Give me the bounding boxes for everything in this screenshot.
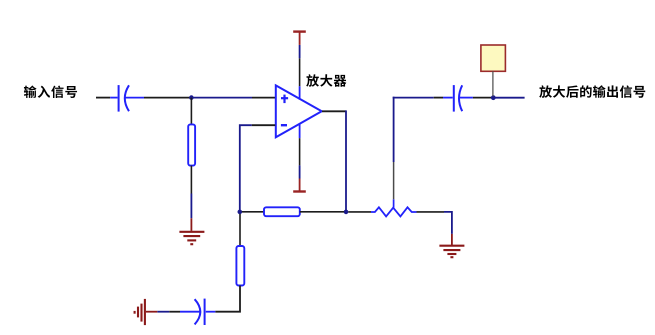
wire	[169, 311, 180, 313]
wire V+ pin	[299, 58, 301, 86]
wire output down to node B	[345, 110, 347, 211]
wire input lead	[96, 97, 110, 99]
wire output stub	[496, 97, 525, 99]
ground G1	[179, 232, 204, 244]
wire feedback corner	[240, 125, 252, 212]
power terminal V-	[293, 179, 306, 192]
wire ground lead	[190, 218, 192, 231]
resistor R3	[236, 246, 244, 286]
wire node A to op-amp	[193, 97, 252, 99]
wire corner to C2	[393, 97, 434, 99]
wire C2 left pin	[434, 97, 443, 99]
ground G3 (rotated)	[135, 299, 145, 325]
wire R4 to ground corner	[417, 211, 445, 213]
capacitor C2	[443, 85, 473, 112]
resistor R1	[188, 124, 195, 165]
node D junction	[491, 95, 496, 100]
wire R2 right pin	[300, 211, 344, 213]
wire R3 down corner to C3	[215, 286, 240, 312]
wire R2 left pin	[242, 211, 264, 213]
wire R1 to ground	[190, 166, 192, 194]
label 放大器 (amplifier)	[306, 74, 346, 86]
node B junction	[344, 210, 349, 215]
wire ground lead	[146, 311, 157, 313]
wire R4 wiper stub	[393, 199, 395, 207]
wire ground lead	[451, 234, 453, 245]
terminal box (yellow pad)	[481, 45, 506, 71]
wire wiper riser	[393, 162, 395, 199]
capacitor C1	[110, 85, 144, 112]
wire	[299, 45, 301, 58]
wire node B to R4	[348, 211, 371, 213]
op-amp U1	[276, 85, 322, 138]
potentiometer R4 zigzag	[371, 207, 417, 216]
wire - input pin	[252, 124, 276, 126]
wire V- pin	[299, 138, 301, 165]
wire C1 to node A	[144, 97, 190, 99]
wire node A down to R1	[190, 98, 192, 125]
node C junction	[238, 210, 243, 215]
ground G2	[439, 246, 464, 258]
node label 输入信号 (input signal)	[24, 85, 77, 98]
wire	[190, 194, 192, 219]
node A junction	[189, 95, 194, 100]
wire corner	[444, 212, 452, 234]
wire output pin	[322, 110, 346, 112]
wire C2 right pin	[473, 97, 491, 99]
power terminal V+	[293, 32, 306, 45]
resistor R2	[264, 207, 300, 216]
capacitor C3	[180, 299, 215, 325]
wire	[157, 311, 169, 313]
wire terminal lead	[492, 71, 494, 96]
wire	[393, 97, 395, 162]
wire node C down to R3	[239, 214, 241, 246]
node label 放大后的输出信号 (amplified output signal)	[539, 85, 645, 98]
wire pin + input	[252, 97, 275, 99]
wire	[299, 165, 301, 178]
